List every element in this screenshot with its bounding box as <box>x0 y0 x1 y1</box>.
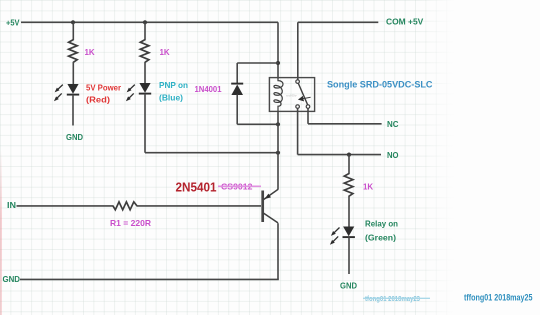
node junction LED2 to emitter line <box>276 151 280 155</box>
wire COM vertical <box>297 22 299 80</box>
resistor R1 220R <box>113 202 137 210</box>
diode D3 1N4001 <box>231 84 243 95</box>
wire collector down <box>277 223 279 279</box>
svg-text:GND: GND <box>66 132 83 142</box>
svg-text:2N5401: 2N5401 <box>176 181 217 195</box>
transistor Q1 collector <box>264 213 279 223</box>
wire GND rail <box>20 278 279 280</box>
node junction on +5V rail at branch 1 <box>71 20 75 24</box>
svg-text:(Red): (Red) <box>86 95 110 105</box>
wire branch1 top <box>72 22 74 40</box>
wire branch2 top <box>144 22 146 40</box>
resistor 1K (relay LED) <box>344 174 353 197</box>
svg-text:GND: GND <box>340 281 357 291</box>
wire NC horizontal <box>308 123 382 125</box>
label PNP on (Blue) <box>159 80 188 103</box>
label 5V Power (Red) <box>86 83 122 105</box>
wire NC vertical <box>307 108 309 123</box>
LED D2 blue (PNP on) <box>126 83 151 101</box>
wire diode bottom vertical <box>236 95 238 125</box>
svg-text:IN: IN <box>7 201 16 210</box>
svg-text:+5V: +5V <box>6 19 20 28</box>
wire resistor R1 to base <box>137 205 262 207</box>
resistor 1K (branch 1) <box>69 40 78 63</box>
svg-text:PNP on: PNP on <box>159 80 188 90</box>
svg-text:COM +5V: COM +5V <box>386 18 424 27</box>
label signature struck out <box>363 294 430 303</box>
resistor 1K (branch 2) <box>140 40 149 63</box>
wire diode top vertical <box>236 63 238 84</box>
relay NC contact circle <box>306 105 310 109</box>
relay switch arm <box>298 83 307 104</box>
node junction diode bottom <box>276 122 280 126</box>
relay K1 box <box>269 78 314 112</box>
wire IN to resistor R1 <box>17 205 114 207</box>
label Relay on (Green) <box>365 219 398 243</box>
transistor Q1 emitter <box>264 189 279 199</box>
wire +5V corner down to relay coil <box>277 22 279 78</box>
svg-text:Relay on: Relay on <box>365 219 398 229</box>
svg-text:GND: GND <box>3 275 21 284</box>
svg-text:(Blue): (Blue) <box>159 93 183 103</box>
wire NO vertical <box>297 108 299 154</box>
label CS9012 struck out <box>218 182 261 192</box>
wire resistor3 top <box>348 155 350 175</box>
wire diode bottom horizontal <box>237 123 278 125</box>
svg-text:1K: 1K <box>160 47 171 57</box>
svg-text:5V Power: 5V Power <box>86 83 122 93</box>
LED D4 green (Relay on) <box>330 227 355 245</box>
LED D1 red (5V Power) <box>54 84 79 101</box>
node junction NO to resistor <box>347 153 351 157</box>
wire COM horizontal <box>298 21 379 23</box>
node junction diode top <box>276 61 280 65</box>
relay common contact circle <box>296 80 300 84</box>
svg-text:Songle SRD-05VDC-SLC: Songle SRD-05VDC-SLC <box>327 80 433 90</box>
node junction on +5V rail at branch 2 <box>143 20 147 24</box>
relay actuation arrow <box>299 97 311 99</box>
svg-text:NC: NC <box>387 120 399 129</box>
svg-text:1K: 1K <box>363 182 374 192</box>
wire branch2 mid <box>144 62 146 84</box>
wire LED3 bottom <box>348 237 350 274</box>
wire branch2 horizontal to emitter node <box>145 152 278 154</box>
wire branch2 bottom vertical <box>144 94 146 153</box>
svg-text:tffong01 2018may25: tffong01 2018may25 <box>464 293 533 303</box>
svg-text:1N4001: 1N4001 <box>195 84 222 94</box>
relay coil <box>274 78 283 111</box>
transistor Q1 emitter arrow <box>265 194 271 199</box>
left edge pink tint <box>0 150 2 315</box>
relay NO contact circle <box>296 105 300 109</box>
wire +5V rail <box>21 21 278 23</box>
svg-text:NO: NO <box>387 151 399 160</box>
svg-text:1K: 1K <box>85 47 96 57</box>
svg-text:srd 05v: srd 05v <box>286 94 297 98</box>
svg-text:R1 = 220R: R1 = 220R <box>110 218 151 228</box>
wire emitter to coil bottom <box>277 111 279 190</box>
transistor Q1 2N5401 base bar <box>261 191 264 223</box>
wire branch1 bottom <box>72 95 74 126</box>
wire NO horizontal <box>298 154 381 156</box>
svg-text:(Green): (Green) <box>365 233 396 243</box>
wire diode top horizontal <box>237 62 278 64</box>
wire resistor3 to LED3 <box>348 196 350 228</box>
wire branch1 mid <box>72 62 74 85</box>
